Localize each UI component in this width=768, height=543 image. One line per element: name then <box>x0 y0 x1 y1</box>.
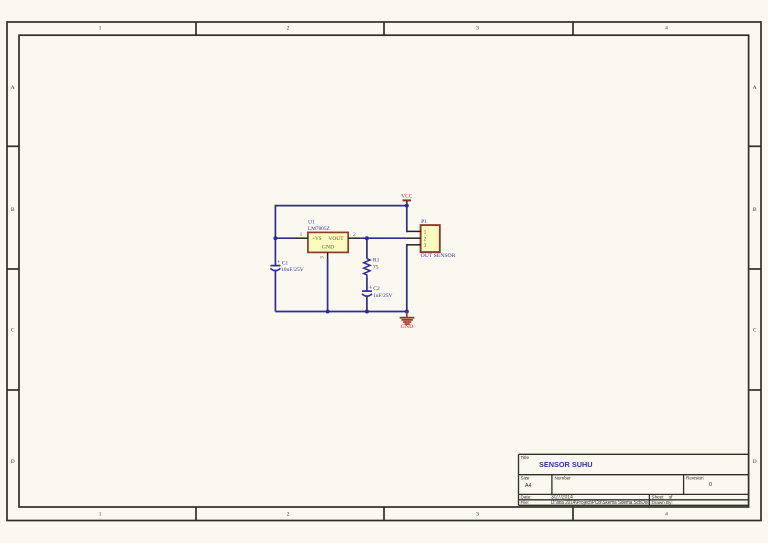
svg-text:GND: GND <box>401 324 414 330</box>
capacitor C1 <box>270 259 304 273</box>
wire U1 output to R1 to P1 pin2 <box>360 237 407 239</box>
svg-text:GND: GND <box>322 245 335 250</box>
wire R1 bottom to C2 <box>366 277 368 291</box>
svg-text:+: + <box>277 259 281 266</box>
wire VCC drop to P1 pin1 <box>406 201 409 232</box>
svg-text:1: 1 <box>99 512 102 518</box>
svg-text:Sheet of: Sheet of <box>652 494 674 499</box>
svg-text:3: 3 <box>424 243 427 249</box>
svg-text:Number: Number <box>555 476 572 481</box>
U1 pin 2 <box>348 232 360 238</box>
svg-text:0: 0 <box>709 482 712 488</box>
P1 pin 1 <box>407 230 427 236</box>
svg-text:SENSOR SUHU: SENSOR SUHU <box>539 460 593 469</box>
svg-text:Title: Title <box>521 455 530 460</box>
connector P1 body <box>421 219 456 259</box>
svg-text:LM7805Z: LM7805Z <box>308 226 331 232</box>
capacitor C2 <box>362 285 393 299</box>
wire U1 pin1 to left rail <box>275 237 296 239</box>
svg-text:B: B <box>11 207 15 213</box>
wire C2 bottom to ground rail <box>366 297 368 312</box>
svg-text:C: C <box>753 328 757 334</box>
resistor R1 <box>364 257 380 277</box>
wire U1 GND pin to ground rail <box>327 259 329 312</box>
junction dot ground rail / GND symbol <box>405 310 409 314</box>
U1 pin 1 <box>296 232 308 238</box>
svg-text:D: D <box>753 459 757 465</box>
svg-text:2: 2 <box>287 512 290 518</box>
svg-text:File:: File: <box>521 500 530 505</box>
svg-text:OUT SENSOR: OUT SENSOR <box>421 253 456 259</box>
title block <box>519 454 749 505</box>
svg-text:75: 75 <box>373 264 379 270</box>
svg-text:Size: Size <box>521 476 530 481</box>
svg-text:2: 2 <box>424 237 427 243</box>
P1 pin 2 <box>407 237 427 243</box>
svg-text:D: D <box>11 459 15 465</box>
svg-text:P1: P1 <box>421 219 427 225</box>
svg-text:U1: U1 <box>308 220 315 226</box>
svg-text:C1: C1 <box>282 260 289 266</box>
junction dot output rail / R1 <box>365 236 369 240</box>
wire left vertical through C1 <box>274 205 276 312</box>
P1 pin 3 <box>407 243 427 249</box>
svg-text:2: 2 <box>287 26 290 32</box>
svg-text:+VS: +VS <box>312 237 321 242</box>
junction dot C2 / ground rail <box>365 310 369 314</box>
svg-text:A: A <box>753 85 757 91</box>
svg-text:Drawn By:: Drawn By: <box>652 500 673 505</box>
svg-text:3: 3 <box>320 256 326 259</box>
svg-text:4: 4 <box>665 512 668 518</box>
svg-text:VOUT: VOUT <box>328 237 343 242</box>
title block labels <box>521 455 705 505</box>
junction dot U1 gnd / ground rail <box>326 310 330 314</box>
junction dot U1 pin1 / C1 rail <box>273 236 277 240</box>
svg-text:4: 4 <box>665 26 668 32</box>
U1 pin 3 <box>320 252 328 259</box>
svg-text:A: A <box>11 85 15 91</box>
svg-text:10uF/25V: 10uF/25V <box>281 267 304 273</box>
svg-text:3: 3 <box>476 26 479 32</box>
svg-text:C: C <box>11 328 15 334</box>
svg-text:C2: C2 <box>373 286 380 292</box>
svg-text:Date:: Date: <box>521 494 532 499</box>
ground symbol GND <box>400 312 415 330</box>
wire P1 pin3 drop to ground rail <box>406 245 409 312</box>
svg-text:1: 1 <box>99 26 102 32</box>
wire top rail VCC to U1 input / C1 <box>275 205 406 207</box>
svg-text:1uF/25V: 1uF/25V <box>373 293 393 299</box>
svg-text:3: 3 <box>476 512 479 518</box>
svg-text:R1: R1 <box>373 257 380 263</box>
op-amp ... regulator U1 body <box>308 220 348 253</box>
wire R1 top drop <box>366 238 368 258</box>
wire bottom ground rail <box>275 311 406 313</box>
svg-text:1: 1 <box>424 230 427 236</box>
svg-text:Revision: Revision <box>686 476 704 481</box>
title block values <box>525 483 650 506</box>
junction dot top rail / VCC <box>405 204 409 208</box>
svg-text:VCC: VCC <box>401 194 412 200</box>
svg-text:2: 2 <box>353 232 356 238</box>
svg-text:D:\lina 2014\Project\PCB\Skema: D:\lina 2014\Project\PCB\Skema Sdema.Sch… <box>551 500 650 506</box>
power port VCC <box>401 194 412 201</box>
svg-text:1: 1 <box>300 232 303 238</box>
svg-text:B: B <box>753 207 757 213</box>
svg-text:A4: A4 <box>525 483 531 489</box>
svg-text:+: + <box>369 285 373 292</box>
